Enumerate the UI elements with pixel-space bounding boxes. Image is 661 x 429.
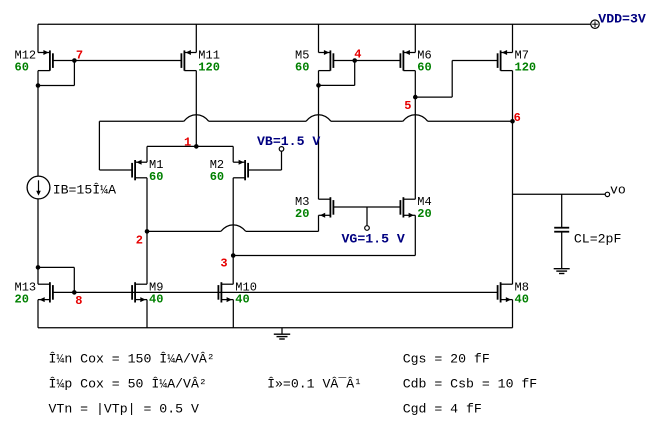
svg-text:VB=1.5 V: VB=1.5 V bbox=[257, 134, 320, 149]
svg-text:Î¼p Cox = 50 Î¼A/VÂ²: Î¼p Cox = 50 Î¼A/VÂ² bbox=[49, 376, 207, 391]
svg-text:60: 60 bbox=[417, 61, 431, 75]
svg-text:40: 40 bbox=[149, 293, 163, 307]
svg-text:Cgs = 20 fF: Cgs = 20 fF bbox=[403, 351, 490, 366]
svg-text:40: 40 bbox=[515, 293, 529, 307]
svg-text:40: 40 bbox=[235, 293, 249, 307]
svg-text:120: 120 bbox=[198, 61, 220, 75]
svg-text:Î»=0.1 VÂ¯Â¹: Î»=0.1 VÂ¯Â¹ bbox=[267, 376, 362, 391]
svg-text:8: 8 bbox=[75, 294, 82, 308]
svg-text:CL=2pF: CL=2pF bbox=[574, 231, 621, 246]
svg-text:60: 60 bbox=[15, 61, 29, 75]
svg-text:6: 6 bbox=[514, 111, 521, 125]
svg-text:7: 7 bbox=[76, 49, 83, 63]
svg-text:3: 3 bbox=[220, 257, 227, 271]
svg-text:VG=1.5 V: VG=1.5 V bbox=[342, 232, 405, 247]
svg-text:IB=15Î¼A: IB=15Î¼A bbox=[53, 183, 116, 198]
svg-text:Î¼n Cox = 150 Î¼A/VÂ²: Î¼n Cox = 150 Î¼A/VÂ² bbox=[49, 351, 215, 366]
svg-text:vo: vo bbox=[610, 183, 626, 198]
svg-text:60: 60 bbox=[210, 170, 224, 184]
svg-text:Cgd = 4 fF: Cgd = 4 fF bbox=[403, 401, 482, 416]
svg-text:1: 1 bbox=[184, 136, 191, 150]
svg-text:VTn = |VTp| = 0.5 V: VTn = |VTp| = 0.5 V bbox=[49, 401, 199, 416]
svg-text:20: 20 bbox=[295, 207, 309, 221]
svg-text:60: 60 bbox=[149, 170, 163, 184]
svg-text:VDD=3V: VDD=3V bbox=[598, 12, 646, 27]
svg-text:5: 5 bbox=[404, 99, 411, 113]
svg-text:2: 2 bbox=[136, 234, 143, 248]
svg-text:Cdb = Csb = 10 fF: Cdb = Csb = 10 fF bbox=[403, 376, 538, 391]
svg-text:120: 120 bbox=[515, 61, 537, 75]
svg-text:20: 20 bbox=[417, 207, 431, 221]
svg-text:60: 60 bbox=[295, 61, 309, 75]
svg-text:20: 20 bbox=[15, 293, 29, 307]
svg-text:4: 4 bbox=[354, 48, 361, 62]
